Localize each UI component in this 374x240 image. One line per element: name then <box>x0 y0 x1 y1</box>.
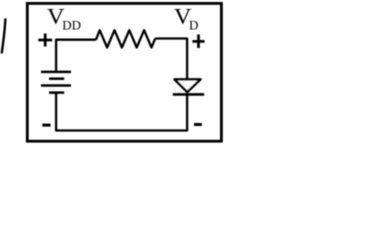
svg-text:DD: DD <box>62 17 81 32</box>
svg-text:D: D <box>189 18 198 33</box>
